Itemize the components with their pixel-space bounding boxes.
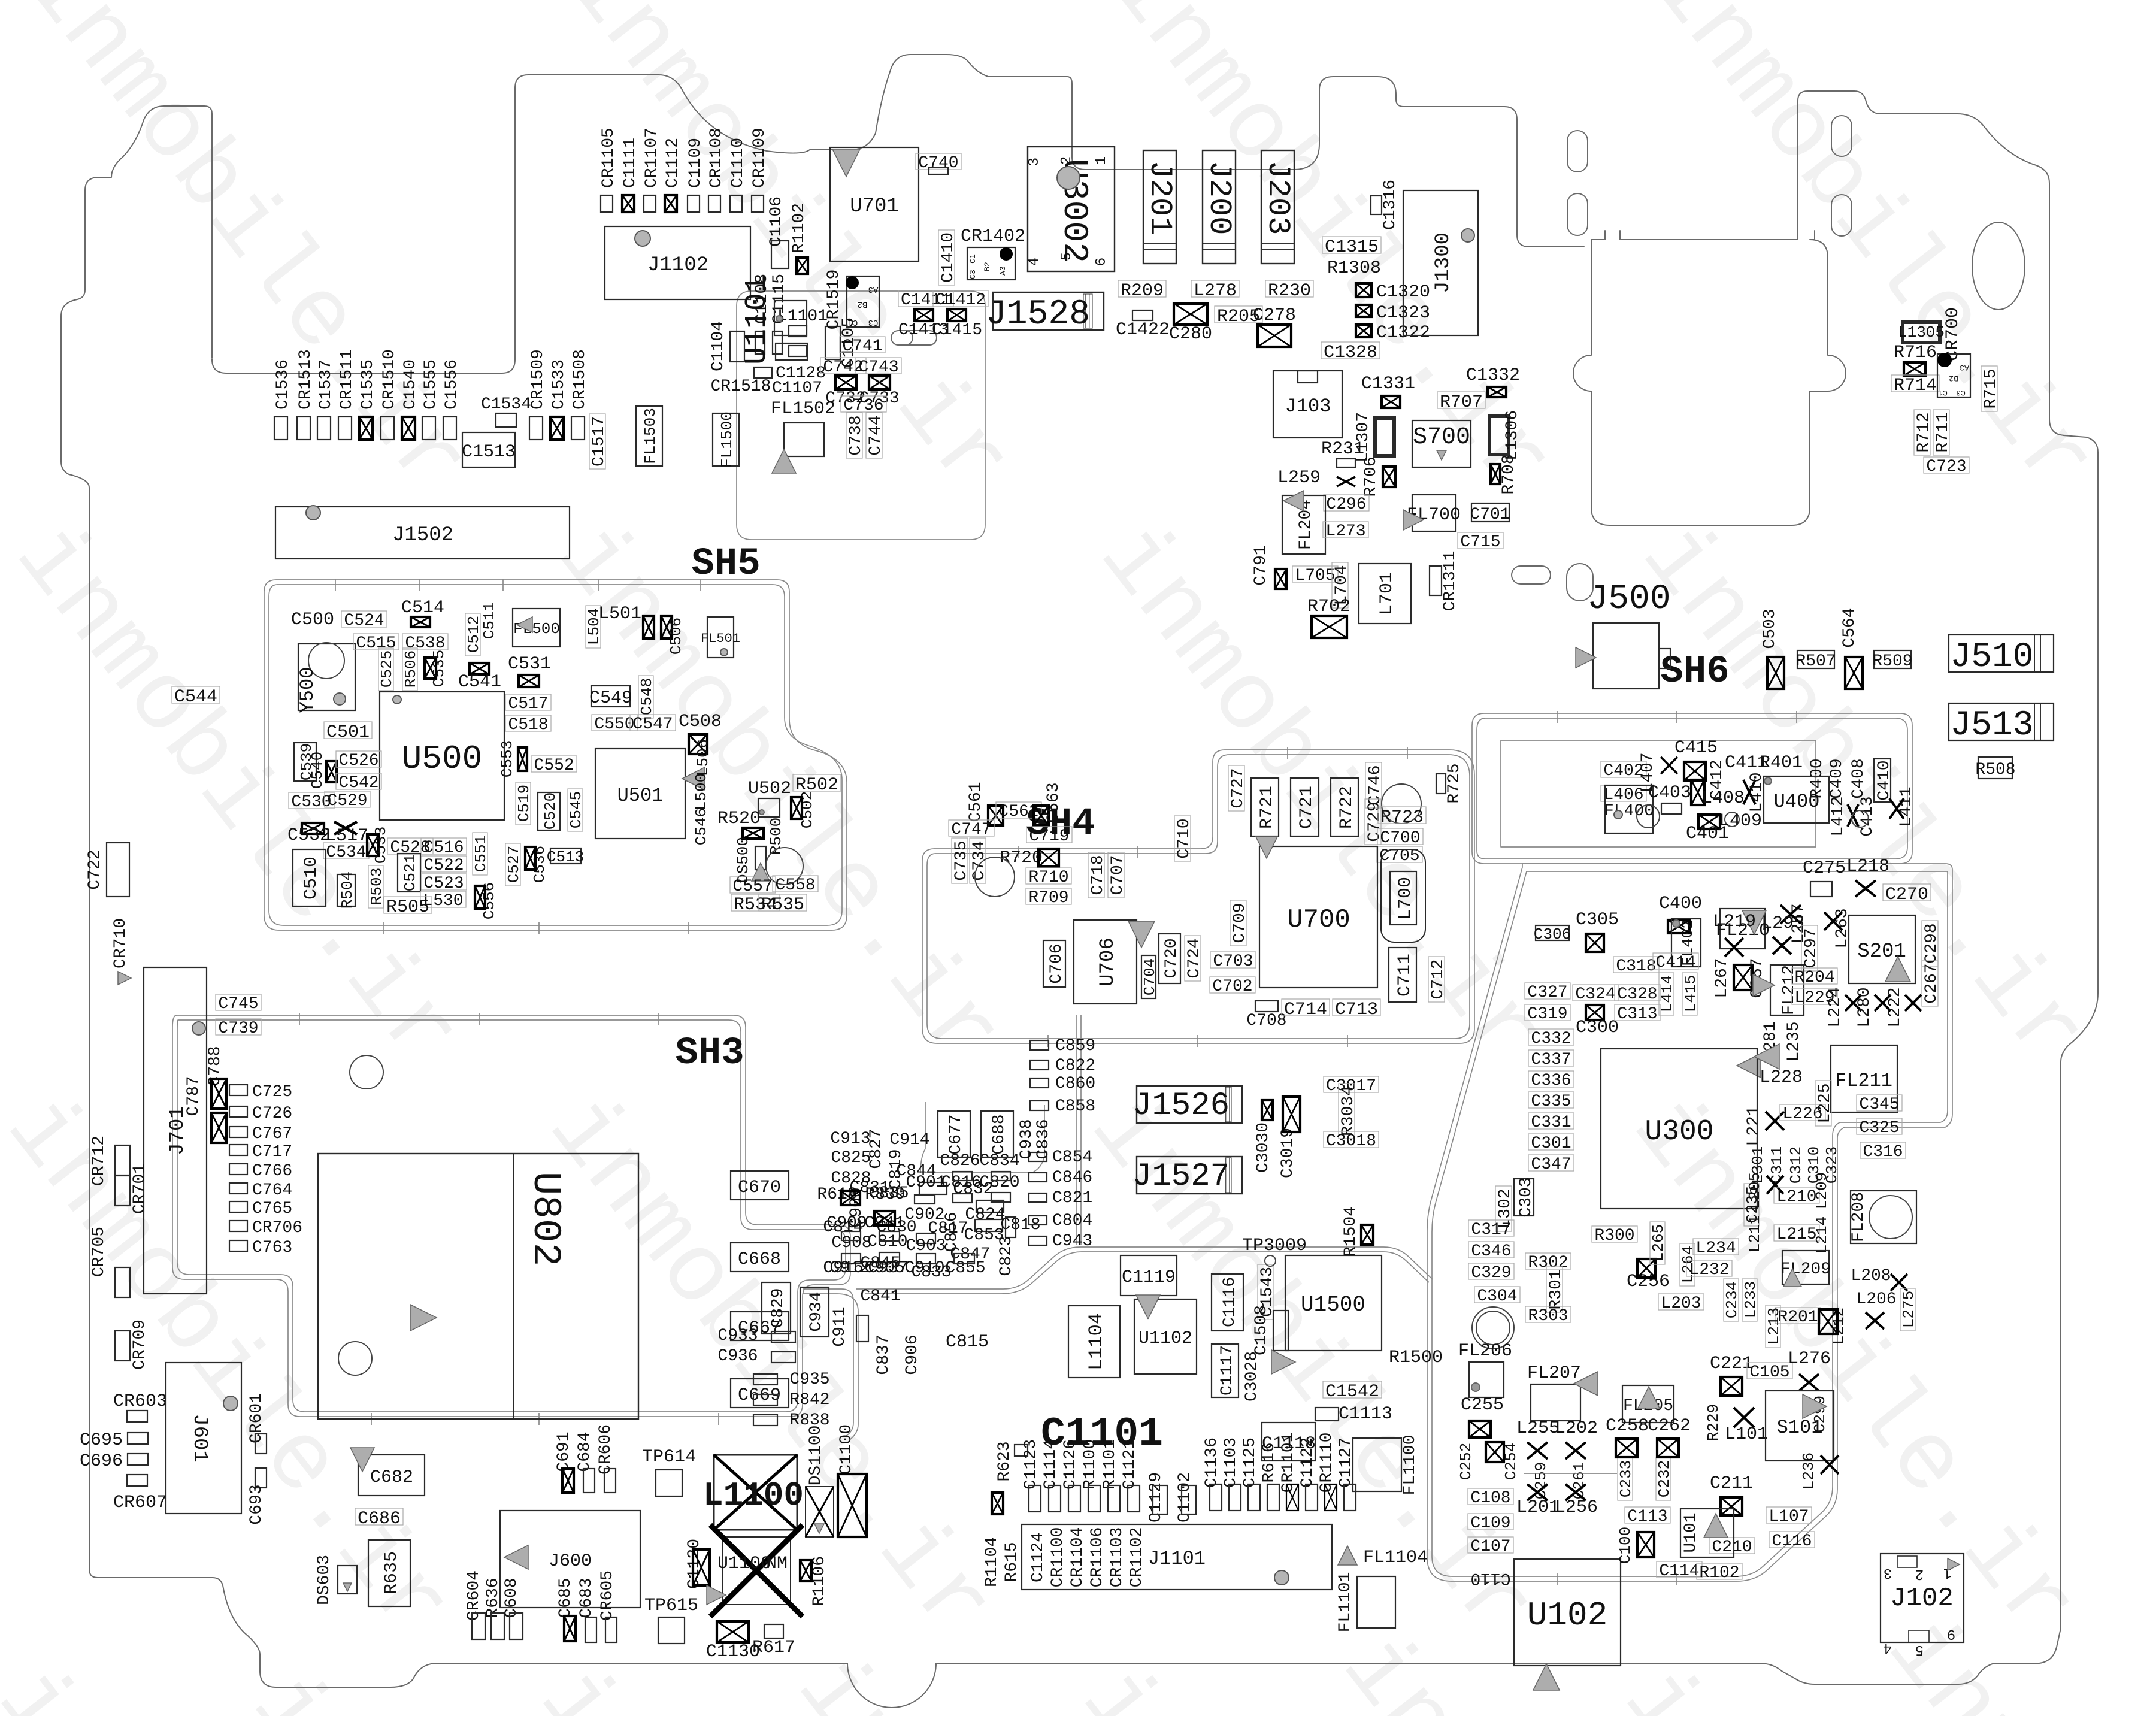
shield right region inner <box>1432 871 1948 1576</box>
svg-text:R1104: R1104 <box>983 1537 1001 1587</box>
capacitor C221 body <box>1721 1377 1742 1396</box>
svg-text:U1102: U1102 <box>1138 1328 1192 1349</box>
capacitor C818 body <box>975 1219 1003 1231</box>
capacitor C400 body <box>1668 920 1689 933</box>
capacitor C696 <box>80 1451 148 1472</box>
filter FL700 <box>1407 495 1461 531</box>
svg-text:C318: C318 <box>1616 957 1656 976</box>
mark S700 <box>1437 450 1446 460</box>
svg-text:C305: C305 <box>1576 910 1619 930</box>
svg-text:C535: C535 <box>430 650 448 687</box>
filter FL1502 body <box>784 423 824 456</box>
svg-text:U700: U700 <box>1287 905 1350 935</box>
capacitor C1121 body <box>1128 1485 1140 1512</box>
capacitor C306 <box>1534 925 1571 943</box>
capacitor C1126 body <box>1068 1485 1080 1512</box>
svg-text:4: 4 <box>1026 258 1043 266</box>
capacitor C529 <box>325 791 370 810</box>
diode CR1105 <box>599 128 618 212</box>
svg-text:C3: C3 <box>1956 388 1966 397</box>
svg-text:L414: L414 <box>1658 975 1676 1012</box>
svg-text:C1: C1 <box>968 254 977 264</box>
svg-text:C518: C518 <box>508 716 548 734</box>
IC U300 <box>1601 1049 1757 1209</box>
capacitor C667 <box>731 1312 789 1340</box>
svg-text:L501: L501 <box>598 604 641 624</box>
capacitor C936 body <box>771 1352 795 1363</box>
capacitor C544 <box>172 686 220 707</box>
capacitor C267 <box>1922 961 1941 1006</box>
capacitor C402 <box>1601 761 1646 780</box>
inductor L224 x <box>1845 995 1861 1011</box>
capacitor C346 <box>1468 1242 1514 1261</box>
via C413 <box>1852 810 1869 827</box>
svg-text:C688: C688 <box>990 1114 1009 1154</box>
capacitor C1534 <box>481 395 531 427</box>
svg-text:C846: C846 <box>1052 1169 1092 1187</box>
inductor L409 body <box>1698 815 1720 829</box>
svg-text:L276: L276 <box>1788 1349 1831 1369</box>
slot hole 4 <box>1831 195 1852 236</box>
resistor R201 <box>1775 1308 1821 1327</box>
svg-text:C911: C911 <box>831 1306 849 1346</box>
resistor R205 <box>1215 306 1262 327</box>
shield SH4 inner <box>927 755 1470 1039</box>
svg-text:CR1509: CR1509 <box>529 349 547 410</box>
capacitor C1535 <box>359 359 377 440</box>
svg-text:CR705: CR705 <box>90 1227 108 1277</box>
capacitor C410 <box>1874 759 1894 802</box>
diode CR1511 <box>338 349 356 440</box>
inductor L701 <box>1359 564 1411 624</box>
orientation mark FL1502 <box>772 449 796 473</box>
svg-text:L412: L412 <box>1829 796 1848 836</box>
U500 pin1 <box>393 695 401 704</box>
capacitor C109 <box>1468 1514 1513 1533</box>
connector J600 <box>500 1511 640 1608</box>
capacitor C733 <box>859 376 899 408</box>
capacitor C1107 <box>776 343 807 360</box>
inductor L275 <box>1900 1288 1918 1331</box>
svg-text:J1101: J1101 <box>1148 1548 1206 1570</box>
svg-text:C558: C558 <box>775 876 815 895</box>
svg-text:C1117: C1117 <box>1218 1345 1237 1396</box>
J701 dot <box>192 1022 205 1035</box>
resistor R708 <box>1491 454 1518 494</box>
svg-text:C108: C108 <box>1470 1489 1510 1508</box>
connector J601 <box>166 1363 241 1514</box>
capacitor C717 <box>229 1143 292 1161</box>
svg-text:C703: C703 <box>1213 952 1253 971</box>
bead R6 small <box>992 1493 1003 1514</box>
wall U1500 right <box>1383 1247 1433 1282</box>
inductor L410 x <box>1743 780 1755 804</box>
svg-text:C724: C724 <box>1185 938 1204 978</box>
svg-text:C669: C669 <box>738 1385 781 1406</box>
svg-text:C855: C855 <box>945 1259 985 1278</box>
svg-text:L225: L225 <box>1816 1083 1834 1123</box>
crystal Y500 <box>298 644 355 710</box>
capacitor C816 body <box>953 1194 972 1203</box>
svg-text:R710: R710 <box>1028 868 1068 887</box>
mark CR710 <box>118 972 131 985</box>
svg-text:C747: C747 <box>951 821 991 839</box>
inductor L226 <box>1780 1104 1825 1124</box>
capacitor C534 <box>323 843 369 862</box>
capacitor C561 body <box>988 806 1003 825</box>
capacitor C736 <box>841 396 886 415</box>
IC U706 <box>1074 920 1137 1004</box>
capacitor C683 body <box>585 1617 596 1642</box>
test point TP614 pad <box>656 1470 682 1496</box>
capacitor C563 body <box>1034 806 1049 825</box>
svg-text:C934: C934 <box>807 1291 826 1331</box>
connector J701 <box>144 967 207 1294</box>
svg-text:L295: L295 <box>1761 913 1804 934</box>
svg-text:R504: R504 <box>338 871 356 909</box>
svg-text:C745: C745 <box>218 995 258 1013</box>
capacitor C1129 body <box>1153 1485 1167 1514</box>
svg-text:C337: C337 <box>1531 1051 1571 1069</box>
capacitor C860 body <box>1030 1078 1049 1088</box>
svg-text:C312: C312 <box>1787 1146 1805 1184</box>
capacitor C1543 <box>1258 1264 1277 1319</box>
svg-text:L211: L211 <box>1746 1215 1764 1252</box>
capacitor C105 <box>1747 1363 1792 1382</box>
resistor R230 <box>1265 280 1313 301</box>
capacitor C695 <box>80 1430 148 1451</box>
capacitor C332 <box>1528 1029 1574 1048</box>
svg-text:C415: C415 <box>1674 738 1718 758</box>
capacitor C521 <box>398 854 420 892</box>
hole in J1102 <box>635 231 650 246</box>
capacitor C114 <box>1657 1561 1702 1581</box>
svg-text:C519: C519 <box>515 785 533 822</box>
svg-text:C561: C561 <box>967 782 985 822</box>
connector J1502 <box>275 507 570 559</box>
inductor L233 <box>1742 1279 1760 1321</box>
connector J1102 <box>605 226 750 299</box>
mark DS500 <box>752 863 770 881</box>
capacitor C1331 body <box>1382 396 1400 408</box>
svg-text:C1109: C1109 <box>686 138 705 188</box>
svg-text:C327: C327 <box>1527 983 1567 1002</box>
resistor R302 <box>1525 1253 1571 1272</box>
svg-text:C726: C726 <box>252 1104 292 1123</box>
svg-text:J1527: J1527 <box>1132 1158 1230 1195</box>
capacitor C255 body <box>1469 1421 1491 1437</box>
svg-text:C270: C270 <box>1885 885 1928 905</box>
filter FL1500 <box>713 411 739 468</box>
svg-text:C313: C313 <box>1617 1005 1657 1024</box>
inductor L225 <box>1815 1081 1834 1126</box>
capacitor C528 <box>387 838 433 857</box>
resistor R504 <box>337 871 356 909</box>
svg-text:C210: C210 <box>1712 1538 1752 1557</box>
svg-text:C933: C933 <box>717 1327 758 1345</box>
capacitor C715 <box>1458 532 1503 552</box>
svg-text:B2: B2 <box>983 262 992 271</box>
capacitor C740 body <box>929 168 948 174</box>
inductor L280 x <box>1875 995 1891 1011</box>
capacitor C820 body <box>991 1193 1010 1202</box>
inductor L1101 body b <box>789 346 807 356</box>
capacitor C1109 <box>686 138 705 212</box>
svg-text:C521: C521 <box>401 854 419 891</box>
svg-text:C1107: C1107 <box>772 379 822 398</box>
slot hole 7 <box>1567 564 1593 601</box>
resistor R1101 body <box>1108 1485 1120 1512</box>
diode CR603 body <box>127 1411 147 1422</box>
inductor L415 <box>1682 973 1700 1015</box>
diode CR606 body <box>604 1469 616 1493</box>
diode CR1107 <box>643 128 661 212</box>
mark U102 <box>1533 1664 1560 1690</box>
svg-text:C1556: C1556 <box>443 359 461 410</box>
capacitor C525 <box>378 648 396 691</box>
inductor L407 x <box>1661 757 1677 774</box>
inductor L700 <box>1390 871 1416 925</box>
svg-text:C329: C329 <box>1471 1264 1511 1282</box>
resistor R623 body <box>1015 1445 1028 1456</box>
hole in J1502 <box>306 506 320 520</box>
svg-text:C544: C544 <box>174 687 217 707</box>
capacitor C1118 <box>1262 1423 1316 1461</box>
svg-text:B2: B2 <box>858 299 868 309</box>
svg-text:C500: C500 <box>291 610 334 630</box>
inductor L1307 <box>1375 418 1394 456</box>
svg-text:C736: C736 <box>843 397 883 415</box>
svg-text:L213: L213 <box>1765 1308 1783 1345</box>
capacitor C304 inner <box>1476 1311 1510 1345</box>
svg-text:L705: L705 <box>1295 567 1335 585</box>
capacitor C669 <box>731 1379 789 1408</box>
capacitor C411 <box>1725 753 1768 773</box>
dot CR1519 <box>846 277 858 289</box>
svg-text:C252: C252 <box>1457 1443 1475 1480</box>
svg-text:FL1101: FL1101 <box>1336 1572 1355 1633</box>
mark U1102 <box>1136 1295 1160 1319</box>
svg-text:C506: C506 <box>667 618 685 655</box>
svg-text:J601: J601 <box>188 1414 211 1463</box>
svg-text:R1500: R1500 <box>1389 1348 1443 1368</box>
svg-text:C1116: C1116 <box>1221 1277 1239 1327</box>
svg-text:C695: C695 <box>80 1430 123 1451</box>
resistor R231 body <box>1337 459 1355 467</box>
svg-text:C910: C910 <box>904 1259 944 1278</box>
svg-text:C691: C691 <box>555 1431 573 1472</box>
capacitor C933 body <box>771 1331 795 1342</box>
svg-text:C510: C510 <box>301 857 322 900</box>
svg-text:L1101: L1101 <box>777 307 828 326</box>
svg-text:L1306: L1306 <box>1503 410 1522 461</box>
capacitor C832 body <box>976 1200 1004 1212</box>
capacitor C829 <box>762 1282 791 1334</box>
capacitor C303 <box>1514 1177 1536 1217</box>
capacitor C557 <box>730 877 776 896</box>
svg-text:R708: R708 <box>1500 454 1518 494</box>
svg-text:C1542: C1542 <box>1325 1382 1379 1402</box>
connector J500 <box>1593 623 1659 689</box>
svg-text:C744: C744 <box>867 415 885 455</box>
svg-text:R209: R209 <box>1121 281 1164 301</box>
capacitor C530 <box>289 792 334 812</box>
capacitor C280 <box>1169 304 1212 344</box>
inductor L263 x <box>1824 912 1842 930</box>
svg-text:R230: R230 <box>1268 281 1311 301</box>
capacitor C1315 <box>1322 237 1381 258</box>
capacitor C767 <box>229 1125 292 1143</box>
svg-text:C503: C503 <box>1761 609 1779 649</box>
inductor L411 x <box>1889 798 1904 819</box>
capacitor C745 <box>216 994 261 1013</box>
IC U501 <box>595 749 685 839</box>
capacitor C720 <box>1159 934 1181 983</box>
svg-text:C298: C298 <box>1922 923 1941 963</box>
resistor R506 <box>402 648 420 691</box>
svg-text:C3019: C3019 <box>1279 1128 1297 1178</box>
mark U300 <box>1754 1044 1779 1069</box>
capacitor C1113 body <box>1315 1408 1339 1421</box>
svg-text:C735: C735 <box>952 840 971 880</box>
capacitor C275 body <box>1810 882 1832 897</box>
filter FL402 <box>1671 919 1701 967</box>
U502 dot <box>759 810 764 815</box>
diode CR1402 body <box>967 247 1015 280</box>
svg-text:C903: C903 <box>906 1237 946 1255</box>
svg-text:L202: L202 <box>1555 1418 1598 1439</box>
capacitor C721 <box>1291 778 1319 836</box>
connector J513 <box>1949 703 2054 745</box>
svg-text:CR701: CR701 <box>131 1164 149 1214</box>
shield wall vent ticks <box>299 579 1797 1585</box>
connector J203 <box>1260 150 1295 264</box>
inductor L213 <box>1765 1305 1783 1348</box>
capacitor C552 <box>531 756 577 775</box>
svg-text:C791: C791 <box>1252 545 1270 585</box>
capacitor C232 <box>1655 1458 1673 1500</box>
capacitor C734 <box>970 838 989 883</box>
svg-text:C836: C836 <box>1034 1119 1053 1159</box>
svg-text:5: 5 <box>1915 1641 1924 1657</box>
svg-text:C262: C262 <box>1648 1416 1691 1436</box>
svg-text:C743: C743 <box>858 358 898 377</box>
svg-text:R1106: R1106 <box>810 1556 829 1606</box>
IC U102 <box>1514 1559 1621 1666</box>
capacitor C684 body <box>583 1469 595 1493</box>
resistor R709 <box>1026 888 1071 907</box>
svg-text:C804: C804 <box>1052 1212 1092 1230</box>
svg-text:C1124: C1124 <box>1029 1532 1047 1582</box>
svg-text:C723: C723 <box>1926 458 1966 476</box>
diode CR700 body <box>1937 354 1970 397</box>
svg-text:CR1102: CR1102 <box>1128 1527 1146 1588</box>
svg-text:DS603: DS603 <box>315 1555 334 1605</box>
svg-text:S700: S700 <box>1413 424 1470 451</box>
svg-text:L1100: L1100 <box>703 1476 804 1515</box>
svg-text:C278: C278 <box>1253 305 1296 326</box>
capacitor C764 <box>229 1181 292 1200</box>
resistor R507 <box>1795 650 1836 671</box>
capacitor C503 body <box>1767 657 1784 689</box>
capacitor C551 <box>472 833 490 875</box>
svg-text:C683: C683 <box>577 1578 596 1618</box>
capacitor C844 body <box>919 1182 947 1194</box>
capacitor C336 <box>1528 1071 1574 1090</box>
capacitor C304 body <box>1472 1307 1514 1349</box>
svg-text:C1536: C1536 <box>274 359 292 410</box>
svg-text:CR1311: CR1311 <box>1441 551 1459 612</box>
capacitor C725 <box>229 1083 292 1101</box>
resistor R1100 body <box>1088 1485 1100 1512</box>
capacitor C108 <box>1468 1488 1513 1508</box>
diode CR1513 <box>296 349 315 440</box>
svg-text:C3: C3 <box>868 317 879 327</box>
svg-text:C1103: C1103 <box>1222 1437 1240 1488</box>
svg-text:R1102: R1102 <box>790 203 808 253</box>
svg-text:C110: C110 <box>1470 1569 1510 1587</box>
diode CR1519 body <box>847 276 879 327</box>
capacitor C714 <box>1282 999 1330 1020</box>
IC U500 <box>380 692 504 820</box>
capacitor C1128 <box>754 367 772 378</box>
diode CR604 body <box>472 1613 485 1639</box>
wall near C1101 region <box>803 1247 1383 1439</box>
capacitor C532 body <box>302 823 324 834</box>
svg-text:C708: C708 <box>1246 1012 1286 1030</box>
svg-text:L232: L232 <box>1689 1261 1729 1279</box>
resistor R706 <box>1362 456 1395 497</box>
svg-text:C116: C116 <box>1772 1532 1812 1551</box>
capacitor C526 <box>336 751 381 770</box>
svg-text:C525: C525 <box>378 650 396 688</box>
svg-text:L203: L203 <box>1661 1294 1701 1313</box>
capacitor C1102 body <box>1182 1485 1196 1514</box>
capacitor C1517 <box>589 414 608 469</box>
svg-text:C232: C232 <box>1655 1460 1673 1497</box>
wall right of C8xx cluster <box>1076 1015 1081 1245</box>
svg-text:C303: C303 <box>1517 1177 1536 1217</box>
svg-text:CR1402: CR1402 <box>961 226 1025 247</box>
capacitor C324 <box>1573 985 1618 1004</box>
svg-text:CR1100: CR1100 <box>1049 1527 1067 1588</box>
svg-text:C696: C696 <box>80 1451 123 1472</box>
svg-text:C529: C529 <box>327 792 367 810</box>
svg-text:CR1518: CR1518 <box>711 377 771 396</box>
svg-text:L206: L206 <box>1856 1290 1896 1309</box>
svg-text:L265: L265 <box>1649 1224 1667 1261</box>
diode CR605 body <box>605 1617 617 1642</box>
connector J1300 <box>1403 190 1478 335</box>
shield frame center <box>737 291 985 540</box>
inductor L221 x <box>1766 1112 1784 1130</box>
capacitor C911 body <box>856 1315 868 1342</box>
svg-text:R535: R535 <box>761 895 804 915</box>
capacitor C316 <box>1860 1142 1906 1161</box>
svg-text:C905: C905 <box>864 1259 904 1278</box>
svg-text:U102: U102 <box>1527 1596 1607 1635</box>
svg-text:L1104: L1104 <box>1085 1313 1107 1370</box>
svg-text:J510: J510 <box>1950 638 2033 677</box>
svg-text:C668: C668 <box>738 1249 781 1270</box>
capacitor C113 <box>1625 1507 1670 1526</box>
LED DS603 body <box>338 1566 357 1594</box>
capacitor C724 <box>1185 936 1204 981</box>
svg-text:R229: R229 <box>1704 1404 1722 1441</box>
svg-text:L278: L278 <box>1194 281 1237 301</box>
svg-text:R623: R623 <box>995 1441 1014 1481</box>
svg-text:C841: C841 <box>860 1287 900 1306</box>
